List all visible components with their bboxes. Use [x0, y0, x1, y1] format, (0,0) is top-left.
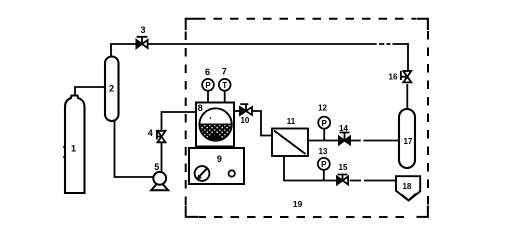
svg-text:16: 16 — [389, 73, 398, 82]
wire column2 bottom to pump5 — [115, 120, 154, 177]
svg-text:P: P — [205, 81, 211, 90]
wire cylinder1 top to column2 — [75, 87, 104, 96]
wire valve3 to top right corner with small gaps — [148, 43, 408, 71]
svg-text:17: 17 — [403, 137, 412, 146]
svg-text:P: P — [321, 160, 327, 169]
valve 10 — [240, 104, 252, 115]
svg-text:P: P — [322, 119, 328, 128]
svg-text:2: 2 — [109, 84, 114, 94]
valve 14 — [339, 133, 350, 145]
vessel 17 — [399, 109, 415, 168]
svg-text:10: 10 — [240, 116, 249, 125]
svg-text:6: 6 — [205, 67, 210, 77]
wire gauge6 stem — [207, 91, 209, 103]
wire flask8 to valve10 — [234, 110, 240, 112]
svg-text:3: 3 — [140, 25, 145, 35]
svg-text:8: 8 — [198, 103, 203, 113]
svg-text:14: 14 — [339, 124, 348, 133]
svg-text:T: T — [222, 81, 227, 90]
svg-text:12: 12 — [318, 104, 327, 113]
svg-text:4: 4 — [148, 128, 153, 138]
column 2 — [105, 57, 119, 122]
wire gauge7 stem — [224, 91, 226, 103]
svg-text:5: 5 — [154, 162, 159, 172]
svg-text:19: 19 — [293, 199, 303, 209]
gauge 7 — [219, 79, 231, 91]
svg-text:9: 9 — [217, 154, 222, 164]
cylinder 1 — [63, 96, 85, 194]
svg-text:13: 13 — [319, 147, 328, 156]
dashed enclosure 19 border — [186, 19, 428, 217]
wire filter11 bottom outlet to valve15 and vessel18 — [284, 156, 396, 181]
svg-text:7: 7 — [222, 67, 227, 77]
stirrer 9 box — [189, 148, 244, 184]
svg-text:15: 15 — [339, 163, 348, 172]
svg-text:1: 1 — [71, 143, 76, 153]
svg-text:18: 18 — [402, 182, 411, 191]
wire valve16 to vessel17 top — [406, 84, 408, 109]
wire gauge12 stem — [323, 129, 325, 141]
valve 4 (vertical) — [157, 131, 166, 143]
valve 15 — [337, 175, 348, 185]
svg-text:11: 11 — [287, 117, 296, 126]
valve 3 — [136, 37, 147, 48]
vessel 18 collector — [396, 176, 420, 200]
wire pump5 up through valve4 to flask8 — [162, 112, 197, 172]
gauge 12 — [318, 117, 330, 129]
stirrer 9 small lamp — [229, 170, 235, 176]
valve 16 (vertical) — [401, 71, 411, 82]
pump 5 — [151, 172, 168, 190]
gauge 13 — [318, 158, 330, 170]
filter 11 — [272, 129, 308, 157]
flask 8 vessel box — [196, 103, 234, 147]
gauge 6 — [202, 79, 214, 91]
flask 8 sphere — [198, 108, 234, 142]
wire filter11 right outlet to valve14 and vessel17 — [308, 140, 399, 142]
stirrer 9 knob — [195, 166, 210, 181]
wire gauge13 stem — [323, 170, 325, 181]
wire column2 top to valve3 — [111, 44, 136, 57]
wire valve10 to filter11 — [252, 111, 272, 136]
